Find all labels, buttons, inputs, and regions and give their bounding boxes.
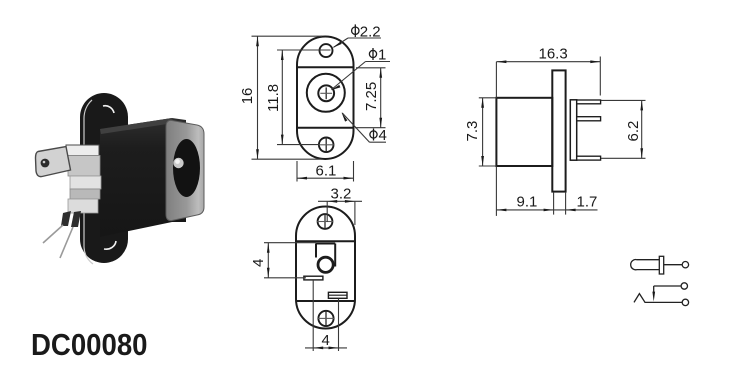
svg-text:3.2: 3.2 xyxy=(331,186,352,203)
svg-text:1.7: 1.7 xyxy=(577,194,598,211)
svg-text:4: 4 xyxy=(322,332,330,349)
svg-text:6.1: 6.1 xyxy=(316,163,337,180)
svg-text:16: 16 xyxy=(239,88,256,105)
svg-text:16.3: 16.3 xyxy=(539,46,568,63)
svg-text:9.1: 9.1 xyxy=(517,194,538,211)
svg-text:7.25: 7.25 xyxy=(363,82,380,111)
svg-text:4: 4 xyxy=(250,259,267,267)
svg-text:7.3: 7.3 xyxy=(464,121,481,142)
svg-text:6.2: 6.2 xyxy=(625,121,642,142)
svg-text:4: 4 xyxy=(379,127,387,144)
svg-text:11.8: 11.8 xyxy=(265,84,282,112)
svg-text:DC00080: DC00080 xyxy=(31,328,148,363)
